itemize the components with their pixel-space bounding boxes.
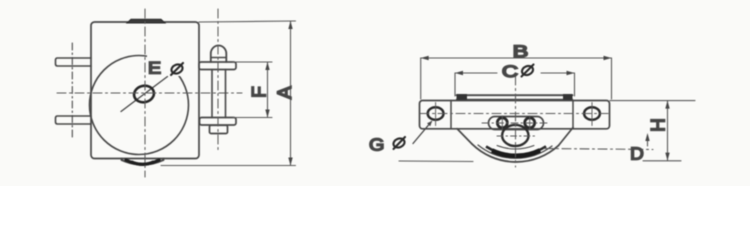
label dia symbol (E) (170, 63, 184, 75)
dimension F extension top (233, 61, 272, 63)
dimension H extension bottom (643, 160, 681, 162)
bottom wheel protrusion (122, 159, 164, 165)
main plate (420, 101, 610, 129)
label C (502, 62, 518, 81)
dimension F extension bottom (233, 117, 272, 119)
leader line E through hole center (121, 77, 168, 112)
hub centerline (497, 135, 536, 137)
vertical centerline right view (515, 76, 517, 167)
label G (369, 135, 384, 155)
left tab lower (56, 116, 92, 124)
dimension B extensions (420, 58, 422, 99)
lower flange (200, 118, 237, 126)
dimension F line (267, 62, 269, 118)
dimension A line (290, 21, 292, 166)
D arrow (647, 136, 649, 146)
dimension A extension top (199, 21, 296, 22)
top tab (127, 19, 165, 23)
upper flange (199, 62, 236, 70)
dome base line (211, 57, 227, 59)
label dia symbol (G) (392, 137, 406, 149)
svg-text:B: B (513, 42, 529, 61)
rivet centerline (482, 122, 550, 124)
horizontal centerline (57, 92, 242, 94)
bend line left (450, 101, 452, 129)
dimension C line (455, 72, 497, 74)
housing chamfer left (457, 129, 472, 144)
leader line G (413, 122, 432, 144)
rivet right (525, 118, 535, 128)
wheel tread dark bottom (486, 146, 546, 155)
label E (148, 58, 161, 77)
label H (651, 118, 665, 136)
horizontal centerline right view (420, 113, 608, 115)
left tab upper (56, 58, 92, 66)
rail tangent line bottom left (399, 160, 473, 163)
tab centerline (71, 43, 73, 140)
axle centerline (217, 9, 219, 150)
dimension B line (421, 57, 612, 59)
dimension H extension top (610, 100, 695, 102)
vertical centerline (144, 9, 146, 177)
rivet boss stadium (489, 117, 544, 130)
axle shaft (211, 70, 213, 118)
label B (513, 42, 529, 61)
wheel rim top line (497, 146, 534, 149)
bend line right (572, 101, 574, 129)
svg-text:H: H (649, 118, 670, 132)
dimension A extension bottom (161, 165, 296, 167)
hub circle (502, 125, 528, 146)
wheel inner arc (478, 145, 552, 158)
axle hole (133, 84, 156, 104)
svg-text:G: G (369, 135, 384, 155)
label dia symbol (C) (521, 64, 535, 76)
nut (210, 125, 228, 133)
plate outline (91, 22, 199, 159)
housing chamfer right (559, 128, 574, 146)
axle bolt dome (211, 46, 227, 63)
ear hole left (428, 107, 444, 120)
label gap for E dia (147, 56, 188, 77)
svg-text:F: F (250, 86, 271, 98)
svg-text:C: C (502, 62, 518, 81)
svg-text:D: D (630, 143, 644, 163)
rivet left (497, 118, 507, 128)
dimension C extensions (454, 73, 456, 96)
hidden line D reference (544, 149, 653, 150)
wheel outer arc (472, 144, 559, 162)
ear hole right (584, 107, 600, 120)
svg-text:E: E (148, 58, 161, 77)
label D (630, 143, 644, 163)
dimension H line (667, 101, 669, 161)
top strip (wheel in slot) (457, 94, 573, 96)
svg-text:A: A (275, 86, 296, 99)
wheel circle (90, 56, 189, 155)
